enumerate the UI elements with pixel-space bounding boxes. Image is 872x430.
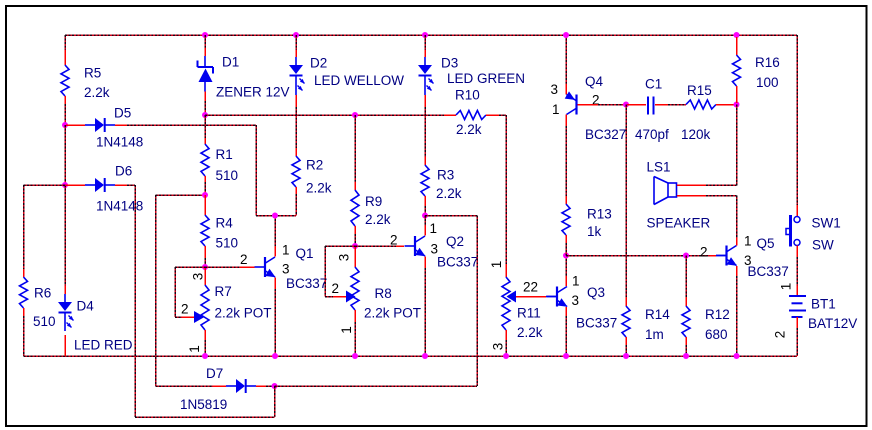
svg-text:R9: R9 — [365, 194, 382, 209]
diode D7 1N5819 — [226, 379, 256, 393]
resistor R9 — [351, 190, 359, 226]
svg-text:2.2k: 2.2k — [517, 325, 543, 340]
wire — [23, 185, 25, 269]
wire — [155, 195, 157, 386]
wire — [256, 215, 296, 217]
svg-text:ZENER 12V: ZENER 12V — [216, 85, 290, 100]
svg-text:510: 510 — [216, 236, 239, 251]
svg-text:R10: R10 — [455, 88, 480, 103]
battery BT1 12V — [789, 296, 806, 317]
capacitor C1 470pf — [648, 97, 654, 115]
pin lead Q2 base — [396, 245, 404, 247]
svg-text:D7: D7 — [206, 366, 223, 381]
svg-text:2.2k: 2.2k — [306, 181, 332, 196]
wire — [625, 105, 627, 298]
svg-text:3: 3 — [491, 343, 506, 351]
wire — [424, 35, 426, 50]
svg-text:Q5: Q5 — [757, 236, 775, 251]
pin lead SW1.1 — [796, 205, 798, 216]
pin lead R14.1 — [625, 297, 627, 306]
wire — [127, 124, 256, 126]
potentiometer R8 2.2k — [351, 267, 359, 310]
pin lead R12.2 — [685, 337, 687, 345]
svg-text:Q4: Q4 — [585, 74, 604, 89]
pin lead R9.2 — [354, 226, 356, 234]
svg-text:R12: R12 — [705, 307, 730, 322]
svg-text:R1: R1 — [216, 147, 233, 162]
svg-text:2.2k: 2.2k — [456, 122, 482, 137]
pin lead Q3 base — [546, 296, 557, 298]
wire — [24, 184, 67, 186]
node R12 top junction — [683, 253, 689, 259]
svg-text:Q2: Q2 — [446, 234, 464, 249]
svg-text:BC337: BC337 — [576, 316, 617, 331]
node D7 cathode junction — [272, 383, 278, 389]
wire — [706, 184, 737, 186]
junction R16 top — [734, 32, 740, 38]
wire — [424, 268, 426, 356]
junction Q1 emitter to ground — [272, 353, 278, 359]
svg-text:D6: D6 — [115, 164, 132, 179]
resistor R1 — [201, 144, 209, 176]
pin lead R4.1 — [204, 195, 206, 215]
LED D3 (green) — [418, 57, 434, 95]
pin lead D1.1 — [204, 48, 206, 56]
svg-text:120k: 120k — [681, 127, 711, 142]
switch SW1 — [786, 215, 800, 247]
svg-text:1: 1 — [430, 221, 438, 236]
pin lead R1.2 — [204, 176, 206, 182]
svg-text:1: 1 — [572, 274, 580, 289]
svg-text:LED RED: LED RED — [74, 338, 133, 353]
svg-text:1: 1 — [339, 326, 354, 334]
pin lead R9.1 — [354, 182, 356, 190]
svg-text:3: 3 — [572, 293, 580, 308]
svg-text:2.2k: 2.2k — [84, 85, 110, 100]
svg-text:100: 100 — [756, 75, 779, 90]
svg-text:SPEAKER: SPEAKER — [647, 216, 711, 231]
wire — [295, 194, 297, 216]
wire — [424, 216, 426, 226]
pin lead Q4 emitter — [565, 84, 567, 95]
svg-text:2.2k POT: 2.2k POT — [364, 306, 421, 321]
svg-text:D4: D4 — [77, 299, 95, 314]
svg-text:1: 1 — [779, 283, 794, 291]
pin lead R12.1 — [685, 297, 687, 306]
wire — [64, 35, 66, 50]
wire — [625, 345, 627, 356]
svg-text:1N4148: 1N4148 — [96, 199, 143, 214]
LED D2 (yellow) — [289, 57, 305, 95]
svg-text:BC327: BC327 — [585, 127, 626, 142]
pin lead R2.1 — [295, 148, 297, 156]
svg-text:SW: SW — [812, 238, 834, 253]
wire — [156, 385, 214, 387]
pin lead R5.1 — [64, 50, 66, 65]
wire — [175, 316, 182, 318]
transistor Q3 BC337 — [547, 287, 568, 307]
junction R12 to ground — [683, 353, 689, 359]
svg-text:1N5819: 1N5819 — [180, 397, 227, 412]
wire — [64, 104, 66, 125]
pin lead Q2 emitter — [424, 257, 426, 269]
pin lead D4.1 — [64, 286, 66, 294]
pin lead D1.2 — [204, 92, 206, 102]
pin lead R16.2 — [736, 86, 738, 103]
wire — [736, 196, 738, 239]
pin lead D7 cathode — [256, 385, 266, 387]
svg-text:R3: R3 — [437, 168, 454, 183]
junction Q3 emitter to ground — [563, 353, 569, 359]
svg-text:R5: R5 — [84, 66, 101, 81]
resistor R2 — [292, 156, 300, 187]
svg-text:22: 22 — [523, 280, 538, 295]
wire — [505, 115, 507, 264]
pin lead Q5 base blue — [716, 255, 726, 257]
wire — [354, 234, 356, 246]
wire — [266, 385, 275, 387]
svg-text:LED GREEN: LED GREEN — [447, 71, 525, 86]
svg-text:510: 510 — [216, 168, 239, 183]
resistor R6 — [20, 277, 28, 308]
transistor Q2 BC337 — [405, 236, 426, 256]
diode D6 1N4148 — [85, 178, 115, 192]
wire — [204, 258, 206, 267]
svg-text:1: 1 — [744, 234, 752, 249]
pin lead D6 cathode — [115, 184, 127, 186]
svg-text:2: 2 — [240, 252, 248, 267]
junction Q4 emitter branch — [563, 32, 569, 38]
wire — [355, 245, 396, 247]
pin lead R8.3 — [354, 246, 356, 267]
junction R14 to ground — [623, 353, 629, 359]
transistor Q4 BC327 — [565, 91, 577, 114]
svg-text:R6: R6 — [34, 286, 51, 301]
svg-text:R7: R7 — [215, 284, 232, 299]
pin lead Q1 base — [240, 266, 255, 268]
pin lead D6 anode — [66, 184, 85, 186]
pin lead Q5 emitter — [736, 266, 738, 276]
svg-text:R13: R13 — [587, 207, 612, 222]
wire ground bottom rail — [24, 355, 798, 357]
pin lead R6.1 — [23, 269, 25, 277]
wire — [275, 385, 478, 387]
svg-text:2: 2 — [181, 302, 189, 317]
svg-text:1m: 1m — [645, 327, 664, 342]
resistor R12 — [682, 306, 690, 337]
pin lead R14.2 — [625, 337, 627, 345]
wire — [425, 215, 477, 217]
svg-text:2.2k: 2.2k — [436, 186, 462, 201]
svg-text:R2: R2 — [306, 158, 323, 173]
svg-text:LED WELLOW: LED WELLOW — [314, 73, 404, 88]
node D5 anode junction — [62, 122, 68, 128]
wire — [685, 345, 687, 356]
resistor R16 — [733, 55, 741, 86]
svg-text:Q3: Q3 — [587, 285, 605, 300]
pin lead D4.2 — [64, 335, 66, 356]
junction D1 branch — [202, 32, 208, 38]
wiper arrow R8 — [346, 291, 356, 303]
svg-text:D1: D1 — [222, 55, 239, 70]
pin lead D5 cathode — [115, 124, 127, 126]
pin lead D2.2 — [295, 95, 297, 107]
svg-text:R16: R16 — [755, 55, 780, 70]
wire — [565, 316, 567, 356]
svg-text:SW1: SW1 — [812, 216, 841, 231]
pin lead R10.1 — [444, 114, 456, 116]
wire — [706, 195, 737, 197]
svg-text:Q1: Q1 — [296, 246, 314, 261]
svg-text:R15: R15 — [687, 83, 712, 98]
wire — [685, 256, 687, 298]
pin lead R2.2 — [295, 187, 297, 194]
svg-text:BC337: BC337 — [286, 276, 327, 291]
wire — [274, 386, 276, 417]
svg-text:D5: D5 — [114, 106, 131, 121]
wire — [204, 340, 206, 356]
pin lead R7.1 — [204, 330, 206, 340]
wire — [255, 125, 257, 216]
wire — [134, 185, 136, 417]
potentiometer R11 2.2k — [502, 277, 510, 330]
wire R7 wiper link — [174, 267, 176, 317]
node R9/R8/Q2 base junction — [352, 243, 358, 249]
pin lead D3.2 — [424, 95, 426, 107]
pin lead Q1 emitter — [274, 278, 276, 290]
pin lead Q1 collector — [274, 246, 276, 257]
wire — [424, 206, 426, 216]
pin lead LS1.2 — [677, 195, 706, 197]
wire — [354, 322, 356, 356]
svg-text:C1: C1 — [645, 77, 662, 92]
svg-text:3: 3 — [336, 254, 351, 262]
resistor R14 — [622, 306, 630, 337]
node D6 anode junction — [62, 182, 68, 188]
wire — [156, 194, 206, 196]
wire — [325, 296, 333, 298]
svg-text:1k: 1k — [587, 224, 602, 239]
svg-text:2.2k: 2.2k — [365, 212, 391, 227]
wire — [565, 126, 567, 196]
junction R7 to ground — [202, 353, 208, 359]
junction D3 branch — [422, 32, 428, 38]
svg-text:3: 3 — [191, 273, 206, 281]
wire +12V top rail — [65, 34, 797, 36]
svg-text:D2: D2 — [310, 56, 327, 71]
wire — [274, 216, 276, 247]
svg-text:2: 2 — [700, 245, 708, 260]
wire — [476, 216, 478, 387]
svg-text:1: 1 — [187, 345, 202, 353]
svg-text:BC337: BC337 — [437, 255, 478, 270]
resistor R10 — [456, 111, 486, 120]
wire — [796, 328, 798, 356]
pin lead R3.2 — [424, 196, 426, 206]
LED D4 (red) — [58, 294, 74, 331]
pin lead D2.1 — [295, 50, 297, 57]
svg-text:2: 2 — [390, 233, 398, 248]
svg-text:R11: R11 — [517, 306, 541, 321]
node R9 top junction — [352, 112, 358, 118]
wire — [565, 256, 567, 277]
pin lead R5.2 — [64, 96, 66, 104]
wire — [204, 35, 206, 48]
node R1/R4/D7 junction — [202, 192, 208, 198]
wire — [205, 266, 240, 268]
pin lead Q3 collector — [565, 276, 567, 286]
wire — [64, 125, 66, 185]
pin lead R7.2 wiper — [182, 316, 194, 318]
wire — [204, 101, 206, 115]
junction R11 to ground — [503, 353, 509, 359]
wire — [135, 416, 275, 418]
svg-text:2: 2 — [773, 331, 788, 339]
svg-text:470pf: 470pf — [635, 127, 669, 142]
pin lead R13.2 — [565, 235, 567, 243]
svg-text:LS1: LS1 — [647, 160, 671, 175]
svg-text:2: 2 — [592, 93, 600, 108]
svg-text:R8: R8 — [375, 286, 392, 301]
wire — [505, 340, 507, 356]
resistor R15 120k — [686, 100, 716, 109]
pin lead D7 anode — [213, 385, 226, 387]
pin lead R10.2 — [486, 114, 499, 116]
svg-text:2: 2 — [332, 281, 340, 296]
pin lead Q3 emitter — [565, 307, 567, 316]
node R13/Q3 collector junction — [563, 253, 569, 259]
wire — [499, 114, 506, 116]
wire — [796, 257, 798, 286]
wiper arrow R7 — [194, 311, 205, 323]
wiper arrow R11 — [507, 291, 517, 303]
svg-text:680: 680 — [705, 327, 728, 342]
node Q4 base/C1 junction — [623, 102, 629, 108]
wire — [565, 243, 567, 256]
junction Q2 emitter to ground — [422, 353, 428, 359]
svg-text:2.2k POT: 2.2k POT — [215, 306, 272, 321]
wire — [424, 107, 426, 157]
junction D2 branch — [293, 32, 299, 38]
svg-text:1: 1 — [282, 243, 290, 258]
node R15/R16/speaker junction — [734, 102, 740, 108]
node Q1 collector junction — [272, 213, 278, 219]
resistor R4 — [201, 215, 209, 246]
pin lead Q4 collector — [565, 115, 567, 127]
pin lead Q4 base — [578, 104, 599, 106]
svg-text:BT1: BT1 — [811, 297, 836, 312]
svg-text:3: 3 — [551, 82, 559, 97]
wire — [204, 115, 206, 138]
wire — [64, 185, 66, 286]
zener diode D1 12V — [198, 56, 214, 92]
wire — [205, 114, 444, 116]
wire — [204, 182, 206, 195]
pin lead D3.1 — [424, 50, 426, 57]
pin lead C1.2 — [655, 104, 668, 106]
wire — [796, 35, 798, 205]
pin lead R11.1 — [505, 264, 507, 277]
svg-text:D3: D3 — [441, 56, 458, 71]
svg-text:3: 3 — [282, 262, 290, 277]
wire — [736, 276, 738, 356]
wire — [565, 35, 567, 84]
pin lead Q2 collector — [424, 226, 426, 236]
junction R8 to ground — [352, 353, 358, 359]
pin lead D5 anode — [66, 124, 85, 126]
svg-text:510: 510 — [33, 314, 56, 329]
pin lead SW1.2 — [796, 246, 798, 258]
svg-text:BAT12V: BAT12V — [808, 316, 857, 331]
junction Q5 emitter to ground — [734, 353, 740, 359]
svg-text:1N4148: 1N4148 — [96, 135, 143, 150]
svg-text:1: 1 — [552, 102, 560, 117]
pin lead R3.1 — [424, 157, 426, 165]
wire — [175, 266, 205, 268]
wire — [23, 316, 25, 356]
pin lead R11 wiper to Q3 base — [516, 296, 546, 298]
wire — [354, 115, 356, 182]
resistor R13 — [562, 204, 570, 235]
pin lead R7.3 — [204, 267, 206, 285]
speaker LS1 — [654, 177, 677, 205]
svg-text:R14: R14 — [645, 307, 670, 322]
wire — [127, 184, 135, 186]
pin lead R8.2 wiper — [333, 296, 346, 298]
transistor Q1 BC337 — [255, 257, 276, 277]
wire — [668, 104, 686, 106]
svg-text:1: 1 — [489, 261, 504, 269]
pin lead R16.1 — [736, 37, 738, 55]
pin lead R6.2 — [23, 308, 25, 316]
pin lead Q5 base — [710, 255, 716, 257]
node R3/Q2 collector junction — [422, 213, 428, 219]
pin lead R4.2 — [204, 246, 206, 258]
wire — [736, 105, 738, 186]
wire — [295, 35, 297, 50]
potentiometer R7 2.2k — [201, 285, 209, 330]
pin lead R8.1 — [354, 310, 356, 322]
node zener/R1 junction — [202, 112, 208, 118]
pin lead Q5 collector — [736, 238, 738, 246]
transistor Q5 BC337 — [716, 246, 737, 266]
wire — [566, 255, 710, 257]
node R4/R7/Q1 base junction — [202, 264, 208, 270]
svg-text:BC337: BC337 — [748, 264, 789, 279]
svg-text:R4: R4 — [216, 216, 234, 231]
pin lead R15.2 — [716, 104, 735, 106]
wire — [274, 289, 276, 356]
pin lead R13.1 — [565, 196, 567, 204]
pin lead BT1.1 — [796, 286, 798, 296]
pin lead LS1.1 — [677, 184, 706, 186]
pin lead R1.1 — [204, 138, 206, 144]
resistor R3 — [421, 165, 429, 196]
wire R8 wiper link — [324, 246, 326, 297]
pin lead BT1.2 — [796, 317, 798, 328]
wire — [295, 107, 297, 148]
wire — [325, 245, 355, 247]
diode D5 1N4148 — [85, 118, 115, 132]
pin lead R11.3 — [505, 330, 507, 340]
pin lead C1.1 — [627, 104, 646, 106]
resistor R5 — [61, 65, 69, 96]
wire — [598, 104, 626, 106]
